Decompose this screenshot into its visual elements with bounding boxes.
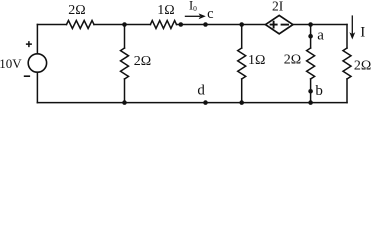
junction dot bottom 1ohm column bbox=[239, 100, 244, 105]
junction dot top 2ohm column bbox=[122, 22, 127, 27]
svg-text:10V: 10V bbox=[0, 56, 22, 71]
node b dot bbox=[308, 89, 313, 94]
resistor R 2ohm middle vertical bbox=[307, 48, 315, 79]
voltage source plus polarity bbox=[24, 41, 32, 76]
resistor R 1ohm top horizontal bbox=[150, 21, 176, 29]
resistor R 2ohm right vertical bbox=[343, 48, 351, 79]
wire 1ohm column upper bbox=[241, 25, 243, 49]
wire a-b column lower bbox=[310, 79, 312, 103]
svg-text:d: d bbox=[197, 83, 205, 99]
svg-text:c: c bbox=[207, 6, 213, 22]
svg-text:I0: I0 bbox=[189, 0, 197, 13]
dependent source minus sign bbox=[281, 24, 289, 26]
wire top rail right bbox=[177, 24, 348, 26]
svg-text:a: a bbox=[317, 27, 324, 43]
junction dot top a column bbox=[308, 22, 313, 27]
voltage source minus polarity bbox=[24, 75, 30, 77]
svg-text:b: b bbox=[315, 83, 323, 99]
node a dot bbox=[308, 34, 313, 39]
dependent source plus sign bbox=[270, 21, 289, 29]
wire top rail left bbox=[37, 24, 66, 26]
arrow I right side bbox=[350, 15, 355, 38]
voltage source V1 10V circle bbox=[28, 54, 46, 72]
svg-text:1Ω: 1Ω bbox=[157, 3, 174, 18]
svg-text:2Ω: 2Ω bbox=[68, 3, 85, 18]
node c dot bbox=[203, 22, 208, 27]
resistor R 2ohm top horizontal bbox=[67, 21, 95, 29]
svg-text:2Ω: 2Ω bbox=[284, 53, 301, 68]
svg-text:I: I bbox=[360, 25, 365, 41]
dependent source 2I diamond bbox=[266, 15, 293, 33]
node d dot bbox=[203, 100, 208, 105]
resistor R 2ohm middle-left vertical bbox=[121, 48, 129, 79]
wire right column lower bbox=[346, 79, 348, 103]
junction dot top 1ohm column bbox=[239, 22, 244, 27]
wire bottom rail bbox=[37, 102, 347, 104]
svg-text:2I: 2I bbox=[272, 0, 284, 14]
wire 1ohm column lower bbox=[241, 79, 243, 103]
wire top rail middle bbox=[94, 24, 150, 26]
junction dot bottom 2ohm column bbox=[122, 100, 127, 105]
svg-text:2Ω: 2Ω bbox=[134, 54, 151, 69]
junction dot after 1ohm resistor bbox=[179, 22, 184, 27]
wire right column upper bbox=[346, 25, 348, 49]
arrow Io bbox=[185, 14, 205, 19]
svg-text:2Ω: 2Ω bbox=[354, 58, 371, 73]
resistor R 1ohm vertical bbox=[238, 48, 246, 79]
wire 2ohm column lower bbox=[124, 79, 126, 103]
junction dot bottom b column bbox=[308, 100, 313, 105]
wire a-b column upper bbox=[310, 25, 312, 49]
svg-text:1Ω: 1Ω bbox=[248, 53, 265, 68]
wire 2ohm column upper bbox=[124, 25, 126, 49]
wire left column bbox=[36, 25, 38, 103]
